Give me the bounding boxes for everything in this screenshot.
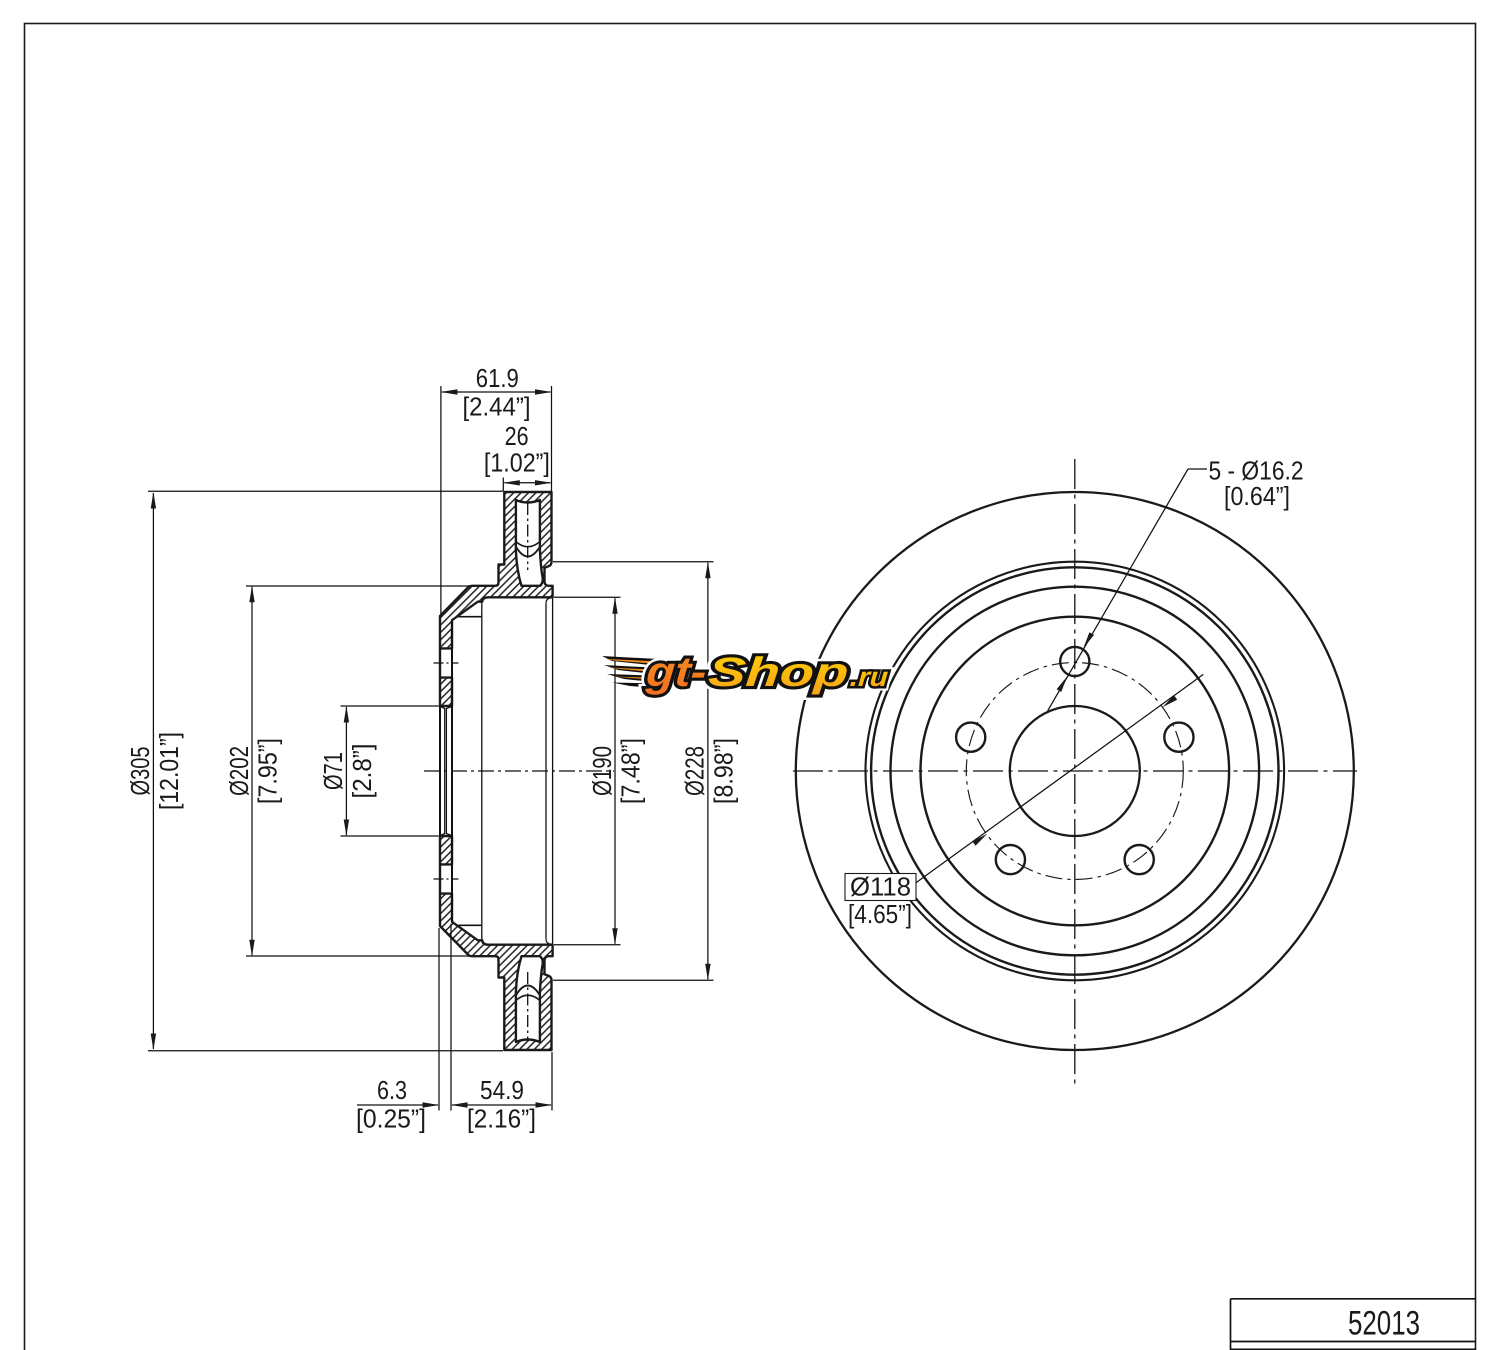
rotor cross-section outline (top half) [440, 492, 553, 706]
svg-text:Ø305: Ø305 [125, 747, 155, 796]
dimension D305 [148, 490, 503, 492]
svg-text:[7.48”]: [7.48”] [615, 738, 645, 804]
vent floor arcs [516, 548, 539, 557]
dimension 26 [502, 478, 504, 492]
svg-text:[2.44”]: [2.44”] [463, 391, 531, 421]
center line: vent channel [527, 503, 529, 570]
center line: rotor axis (section) [424, 770, 614, 772]
gt-shop.ru watermark logo [602, 648, 890, 695]
cone inner silhouette lines [459, 616, 482, 618]
svg-text:[7.95”]: [7.95”] [252, 738, 282, 804]
svg-text:Shop: Shop [707, 649, 850, 695]
dimension D228 [553, 561, 714, 563]
leader 5-D16.2 [1048, 469, 1188, 711]
dimension 54.9 [551, 1052, 553, 1111]
logo speed lines [602, 656, 660, 666]
svg-text:[2.16”]: [2.16”] [467, 1103, 536, 1133]
svg-text:61.9: 61.9 [476, 363, 519, 393]
svg-text:[12.01”]: [12.01”] [154, 732, 184, 810]
svg-text:Ø190: Ø190 [587, 746, 617, 796]
outer circle D305 [796, 492, 1354, 1050]
title block [1231, 1298, 1477, 1300]
rotor cross-section: hatched cut area (bottom half) [430, 762, 560, 1062]
svg-text:[8.98”]: [8.98”] [708, 738, 738, 804]
svg-text:[0.64”]: [0.64”] [1224, 481, 1290, 511]
svg-text:Ø118: Ø118 [850, 871, 911, 901]
bore chamfer silhouette [444, 708, 446, 834]
circle D202 [891, 587, 1260, 956]
bolt circle D118 dash-dot [966, 663, 1183, 880]
svg-text:.ru: .ru [849, 662, 890, 692]
dimension 61.9 [440, 386, 442, 617]
hat interior silhouette lines [451, 620, 453, 922]
svg-text:[1.02”]: [1.02”] [484, 448, 550, 478]
face plane silhouette across bore [439, 706, 441, 836]
dimension D71 [341, 705, 439, 707]
rotor cross-section outline (bottom half, mirrored) [440, 836, 553, 1050]
D118 label box [845, 874, 916, 901]
front view center lines [793, 770, 1357, 772]
circle hat step [871, 567, 1278, 974]
rotor cross-section: hatched cut area (top half) [430, 480, 560, 780]
circle hat face [921, 617, 1230, 926]
svg-text:[4.65”]: [4.65”] [848, 899, 912, 929]
svg-text:Ø71: Ø71 [318, 752, 348, 790]
svg-text:52013: 52013 [1348, 1305, 1420, 1343]
5 bolt holes D16.2 [1060, 647, 1089, 676]
svg-text:54.9: 54.9 [480, 1075, 524, 1105]
svg-text:6.3: 6.3 [377, 1075, 407, 1105]
dimension D202 [246, 585, 470, 587]
center bore D71 [1010, 706, 1140, 836]
dimension D118 diagonal [916, 674, 1204, 883]
svg-text:gt-: gt- [644, 648, 708, 695]
dimension D190 [554, 596, 621, 598]
svg-text:Ø202: Ø202 [224, 746, 254, 796]
svg-text:Ø228: Ø228 [680, 746, 710, 796]
svg-text:[2.8”]: [2.8”] [347, 744, 377, 799]
circle D228 [866, 562, 1285, 981]
center line: flange bolt holes (section) [434, 662, 459, 664]
vent vane edge arcs [516, 542, 539, 547]
svg-text:[0.25”]: [0.25”] [356, 1103, 426, 1133]
dimension 6.3 [438, 928, 440, 1111]
